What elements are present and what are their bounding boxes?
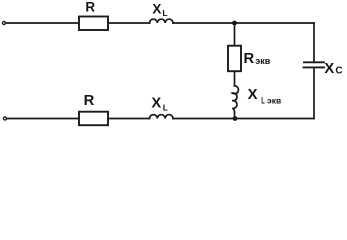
svg-text:R: R (244, 51, 255, 67)
svg-text:L: L (261, 96, 265, 107)
svg-text:X: X (248, 87, 258, 103)
svg-text:L: L (163, 103, 168, 113)
wire down to Rekv (234, 23, 236, 46)
resistor R (bottom) (79, 112, 108, 126)
inductor XL (bottom) (150, 115, 174, 119)
inductor XLekv (vertical) (232, 86, 238, 113)
capacitor XC bottom lead (313, 67, 315, 118)
capacitor XC bottom plate (304, 66, 325, 68)
resistor R (top) (79, 17, 108, 31)
wire bottom-left (7, 118, 80, 120)
wire Rekv to XLekv (234, 71, 236, 86)
junction node (bottom) (233, 116, 238, 121)
inductor XL (top) (150, 19, 174, 23)
terminal (top-left input) (2, 21, 5, 24)
junction node (top) (232, 21, 237, 26)
wire bottom-right (173, 118, 314, 120)
wire between R and XL (bottom) (108, 118, 150, 120)
terminal (bottom-left input) (3, 117, 6, 120)
svg-text:R: R (85, 0, 95, 15)
wire top-right (173, 22, 314, 24)
wire XLekv to bottom rail (234, 112, 236, 119)
wire between R and XL (top) (108, 22, 150, 24)
svg-text:экв: экв (255, 56, 270, 66)
svg-text:L: L (162, 8, 167, 18)
svg-text:X: X (151, 96, 161, 112)
capacitor XC top lead (313, 23, 315, 62)
svg-text:R: R (84, 93, 95, 109)
svg-text:экв: экв (267, 96, 281, 106)
capacitor XC top plate (304, 61, 324, 63)
wire top-left (6, 22, 80, 24)
resistor Rekv (228, 46, 241, 71)
svg-text:X: X (152, 2, 161, 17)
svg-text:X: X (324, 61, 334, 77)
svg-text:C: C (335, 66, 342, 77)
